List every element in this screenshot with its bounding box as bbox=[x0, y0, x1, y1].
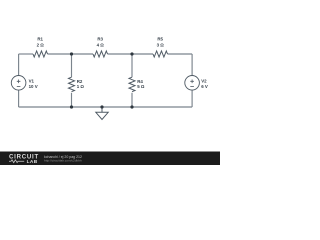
wire: left rail upper (V1 to top rail) bbox=[18, 54, 20, 76]
svg-text:V1: V1 bbox=[29, 78, 35, 83]
wire: top rail segment R3 to R5 (through node B) bbox=[108, 53, 154, 55]
svg-text:R5: R5 bbox=[157, 37, 163, 42]
svg-text:2 Ω: 2 Ω bbox=[37, 43, 45, 48]
wire: R4 branch lower stub bbox=[131, 93, 133, 107]
svg-text:1 Ω: 1 Ω bbox=[77, 84, 85, 89]
wire: R2 branch lower stub bbox=[71, 93, 73, 107]
footer bar bbox=[0, 152, 220, 166]
voltage source V2 bbox=[185, 76, 208, 91]
junction ground bbox=[100, 105, 103, 108]
resistor R3 bbox=[93, 37, 108, 57]
wire: top rail segment R5 to V2 corner bbox=[168, 53, 193, 55]
resistor R2 bbox=[69, 77, 85, 92]
wire: bottom rail bbox=[19, 106, 193, 108]
junction R4 bottom bbox=[130, 105, 133, 108]
svg-text:5 Ω: 5 Ω bbox=[137, 84, 145, 89]
resistor R1 bbox=[33, 37, 48, 57]
node B junction (R3/R5/R4) bbox=[130, 52, 133, 55]
resistor R5 bbox=[153, 37, 168, 57]
wire: right rail lower (V2 to bottom rail) bbox=[191, 90, 193, 107]
node A junction (R1/R3/R2) bbox=[70, 52, 73, 55]
wire: top rail segment R1 to R3 (through node A) bbox=[48, 53, 94, 55]
wire: right rail upper (top rail to V2) bbox=[191, 54, 193, 76]
svg-text:R1: R1 bbox=[37, 37, 43, 42]
svg-text:4 Ω: 4 Ω bbox=[97, 43, 105, 48]
wire: R4 branch upper stub bbox=[131, 54, 133, 77]
wire: top rail segment V1 to R1 bbox=[19, 53, 33, 55]
svg-text:3 Ω: 3 Ω bbox=[157, 43, 165, 48]
svg-text:10 V: 10 V bbox=[29, 84, 38, 89]
ground bbox=[96, 107, 108, 120]
svg-text:LAB: LAB bbox=[27, 159, 38, 165]
svg-text:R3: R3 bbox=[97, 37, 103, 42]
svg-text:6 V: 6 V bbox=[201, 84, 208, 89]
wire: left rail lower (V1 to bottom rail) bbox=[18, 90, 20, 107]
svg-text:V2: V2 bbox=[201, 78, 207, 83]
resistor R4 bbox=[129, 77, 145, 92]
CircuitLab logo bbox=[9, 154, 39, 165]
voltage source V1 bbox=[11, 76, 37, 91]
wire: R2 branch upper stub bbox=[71, 54, 73, 77]
svg-text:http://circuitlab.com/c2dbbh: http://circuitlab.com/c2dbbh bbox=[44, 159, 82, 163]
junction R2 bottom bbox=[70, 105, 73, 108]
